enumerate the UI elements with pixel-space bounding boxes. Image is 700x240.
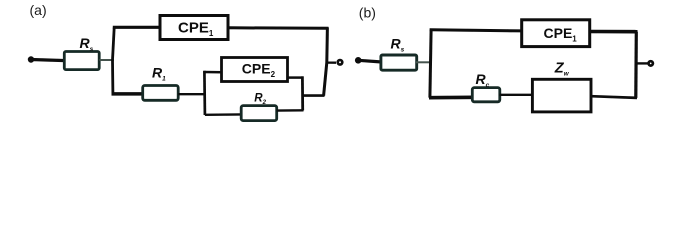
CPE element U2 (a) (222, 58, 288, 82)
resistor Rs (b) (381, 55, 417, 70)
wire input to Rs (a) (31, 60, 66, 61)
wire bottom rail to Rc (b) (429, 96, 474, 100)
terminal input dot (b) (355, 57, 362, 64)
CPE element U1 (a) (160, 16, 228, 40)
svg-text:CPE1: CPE1 (178, 20, 214, 39)
resistor Rs (a) (64, 52, 99, 70)
svg-text:R1: R1 (152, 65, 166, 83)
resistor R2 (a) (241, 106, 277, 121)
wire Rc to Zw (b) (500, 94, 534, 96)
terminal output ring (b) (649, 61, 653, 65)
svg-text:CPE1: CPE1 (544, 25, 578, 44)
svg-text:(b): (b) (359, 5, 376, 21)
node C vertical wire (a) (301, 76, 304, 110)
node B vertical wire (a) (203, 71, 206, 115)
svg-text:R2: R2 (254, 92, 266, 106)
wire node B to R2 (a) (205, 113, 243, 116)
right vertical wire (a) (324, 28, 328, 96)
wire output stub (a) (326, 61, 336, 63)
wire Rs to left vertical (b) (416, 61, 432, 63)
wire node B to CPE2 (a) (203, 71, 222, 74)
svg-text:Rs: Rs (80, 35, 94, 53)
wire bottom branch to R1 (a) (112, 92, 145, 96)
node A vertical wire (a) (113, 28, 115, 94)
wire CPE2 to node C (a) (288, 76, 304, 79)
wire top rail left (b) (430, 30, 523, 31)
resistor Rc (b) (472, 88, 500, 102)
svg-text:CPE2: CPE2 (242, 61, 276, 80)
left vertical wire (b) (430, 30, 431, 98)
right vertical wire (b) (634, 32, 638, 98)
wire R1 to node B (a) (178, 93, 205, 95)
wire R2 to node C (a) (277, 109, 304, 112)
wire output stub (b) (636, 62, 648, 64)
Warburg element Zw (b) (532, 79, 591, 112)
wire top rail left (a) (113, 26, 161, 29)
svg-text:Rs: Rs (391, 36, 405, 54)
resistor R1 (a) (143, 86, 179, 101)
terminal output ring (a) (338, 60, 343, 65)
wire Zw to right vertical (b) (591, 96, 637, 98)
wire top rail right (b) (590, 30, 638, 34)
wire top rail right (a) (228, 26, 329, 30)
terminal input dot (a) (28, 56, 34, 62)
wire input to Rs (b) (358, 60, 382, 62)
wire node C to right vertical (a) (302, 94, 325, 97)
wire Rs to node A (a) (100, 59, 115, 61)
svg-text:Rc: Rc (476, 71, 490, 89)
CPE element U1 (b) (522, 20, 590, 47)
svg-text:(a): (a) (30, 2, 47, 18)
svg-text:Zw: Zw (554, 61, 570, 78)
